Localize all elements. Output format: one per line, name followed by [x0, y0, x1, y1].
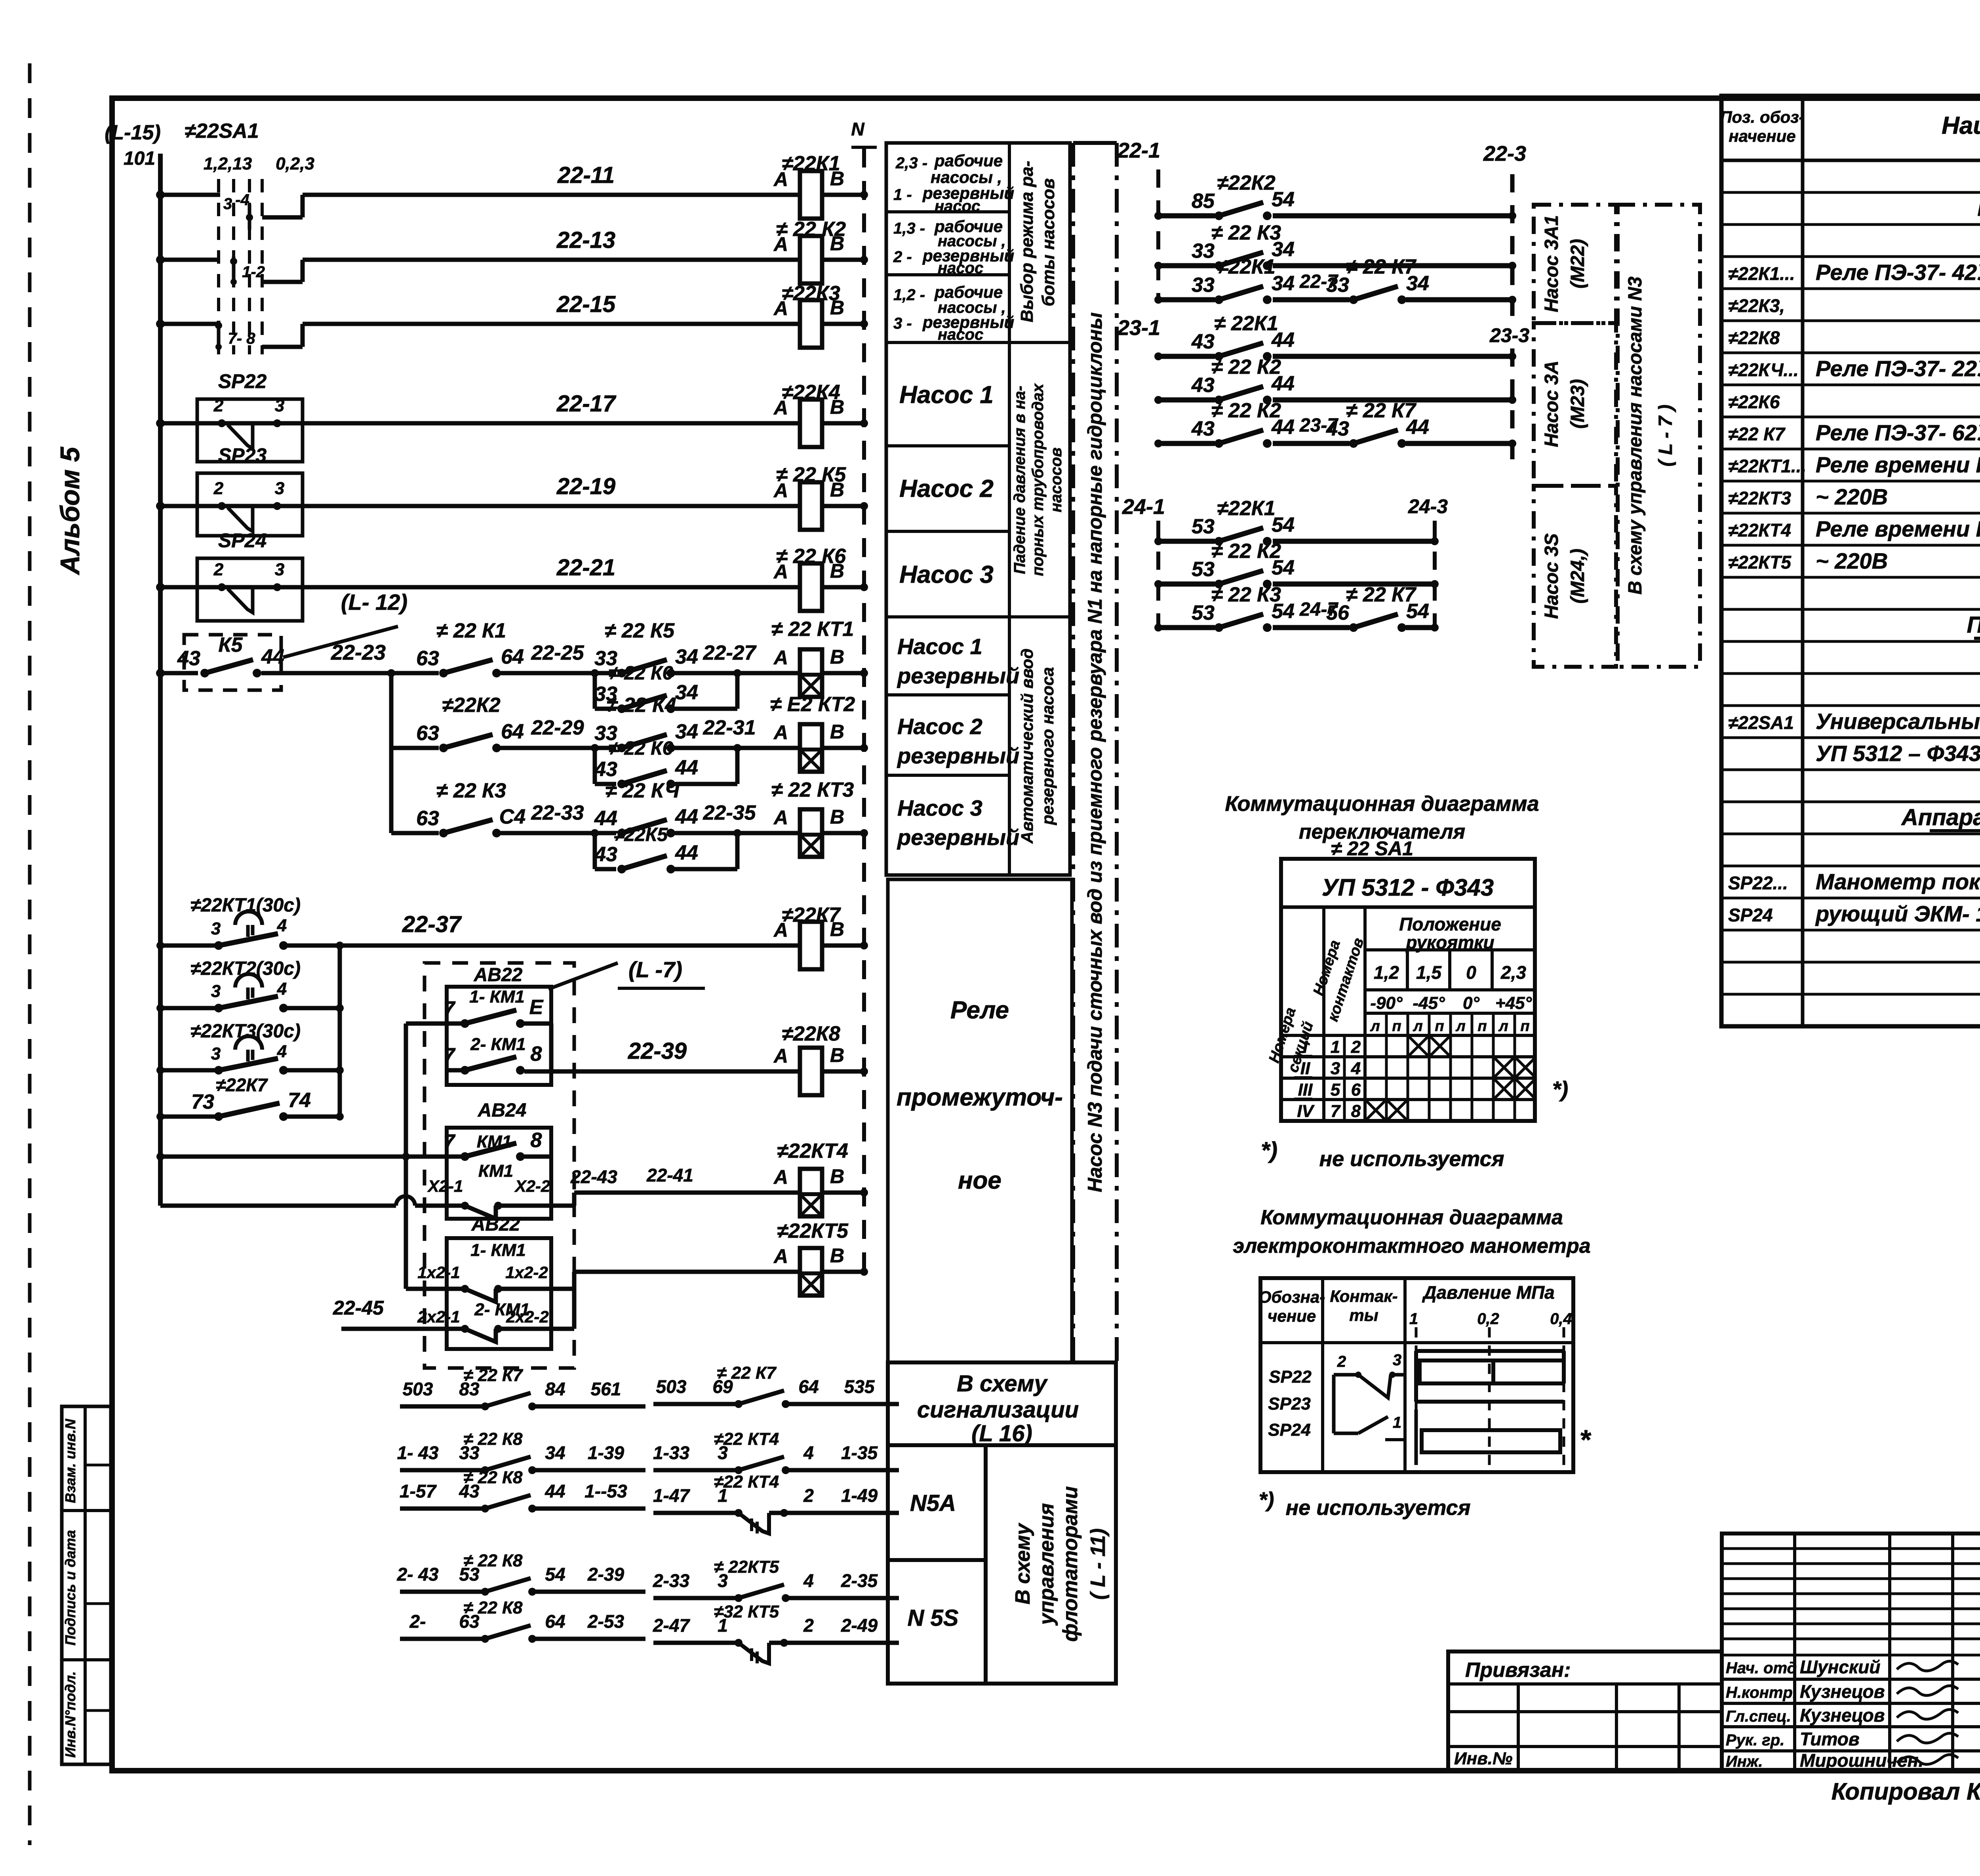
svg-text:*): *): [1259, 1488, 1274, 1512]
svg-text:2- КМ1: 2- КМ1: [470, 1035, 526, 1054]
svg-text:1-2: 1-2: [242, 263, 265, 281]
svg-text:В: В: [830, 1165, 844, 1187]
svg-text:≠ 22 К8: ≠ 22 К8: [463, 1468, 523, 1487]
svg-text:насос: насос: [938, 326, 983, 343]
svg-text:≠ Е2 КТ2: ≠ Е2 КТ2: [770, 693, 855, 716]
svg-text:Мирошничен.: Мирошничен.: [1800, 1750, 1923, 1771]
svg-text:22-31: 22-31: [703, 716, 756, 739]
wire rung 23 group 43-44 22K1: [1158, 354, 1215, 359]
svg-text:1,5: 1,5: [1416, 962, 1442, 983]
svg-text:5: 5: [1331, 1080, 1340, 1100]
svg-text:22-25: 22-25: [531, 641, 584, 664]
wire rung 22-11: [160, 193, 220, 197]
svg-text:-4: -4: [235, 191, 249, 209]
svg-text:А: А: [773, 297, 788, 320]
svg-text:≠22SА1: ≠22SА1: [185, 120, 259, 143]
svg-text:Реле ПЭ-37- 42УЗ , ~ 220В: Реле ПЭ-37- 42УЗ , ~ 220В: [1816, 260, 1980, 285]
svg-text:34: 34: [545, 1442, 565, 1463]
svg-text:2,3: 2,3: [1500, 962, 1526, 983]
svg-text:7: 7: [444, 997, 456, 1020]
svg-text:≠22К1: ≠22К1: [1217, 497, 1275, 520]
svg-text:8: 8: [531, 1129, 542, 1152]
svg-text:2х2-2: 2х2-2: [506, 1307, 548, 1326]
svg-text:порных трубопроводах: порных трубопроводах: [1029, 383, 1047, 576]
svg-text:2-33: 2-33: [653, 1570, 689, 1591]
wire rung 22 group1 85-54 22K2: [1158, 213, 1215, 219]
manometer pressure bars: [1416, 1349, 1564, 1353]
svg-text:Насос N3 подачи сточных во: Насос N3 подачи сточных вод из приемного…: [1084, 312, 1106, 1192]
parts table frame: [1721, 96, 1980, 1026]
svg-text:Давление МПа: Давление МПа: [1422, 1282, 1554, 1303]
svg-text:Коммутационная диаграмма: Коммутационная диаграмма: [1225, 792, 1539, 816]
svg-text:22-33: 22-33: [531, 801, 584, 824]
svg-text:-90°: -90°: [1370, 993, 1403, 1013]
svg-text:Реле времени РКВ11- 43 - 12: Реле времени РКВ11- 43 - 122 УХЛ4 ,: [1816, 516, 1980, 541]
svg-text:Выбор режима ра-: Выбор режима ра-: [1017, 161, 1037, 322]
svg-text:≠ 22 К5: ≠ 22 К5: [605, 619, 675, 642]
svg-text:≠ 22 К8: ≠ 22 К8: [463, 1551, 523, 1570]
svg-text:Е: Е: [529, 996, 544, 1019]
svg-text:≠ 22КТ5: ≠ 22КТ5: [714, 1557, 779, 1577]
svg-text:≠ 22 К8: ≠ 22 К8: [463, 1429, 523, 1449]
svg-text:≠22 КТ4: ≠22 КТ4: [714, 1429, 779, 1449]
svg-text:24-3: 24-3: [1408, 495, 1448, 518]
svg-text:ты: ты: [1349, 1306, 1378, 1324]
svg-text:Насос 1: Насос 1: [899, 381, 994, 409]
svg-text:Наименование: Наименование: [1942, 112, 1980, 139]
svg-text:управления: управления: [1035, 1503, 1058, 1626]
svg-text:Поз. обоз-: Поз. обоз-: [1720, 108, 1804, 126]
svg-text:3: 3: [211, 919, 221, 938]
svg-text:22-21: 22-21: [556, 555, 615, 580]
svg-text:В: В: [830, 721, 844, 743]
wire rung 24 group 53-54 22K1: [1158, 539, 1215, 544]
svg-text:64: 64: [545, 1611, 565, 1632]
svg-text:л: л: [1498, 1018, 1508, 1035]
svg-text:22-15: 22-15: [556, 291, 616, 317]
svg-text:3: 3: [211, 1044, 221, 1064]
svg-text:2: 2: [213, 396, 224, 415]
svg-text:Альбом 5: Альбом 5: [55, 447, 85, 576]
svg-text:≠ 22 К2: ≠ 22 К2: [1211, 356, 1281, 379]
svg-text:3: 3: [1331, 1059, 1340, 1078]
svg-text:4: 4: [803, 1570, 814, 1591]
pump M23 box: [1534, 323, 1616, 486]
svg-text:Реле времени РКВ11- 33- 112: Реле времени РКВ11- 33- 112 УХЛ4 ,: [1816, 452, 1980, 477]
svg-text:-45°: -45°: [1413, 993, 1445, 1013]
svg-text:22-29: 22-29: [531, 716, 584, 739]
svg-text:В: В: [830, 1244, 844, 1267]
svg-text:Насос 2: Насос 2: [899, 475, 994, 502]
svg-text:503: 503: [656, 1376, 687, 1397]
svg-text:43: 43: [594, 758, 617, 781]
switch SA1 contact 7-8: [215, 322, 222, 329]
wire rung 22-39: [524, 1069, 768, 1074]
svg-text:43: 43: [177, 647, 200, 670]
svg-text:SР22: SР22: [1269, 1367, 1312, 1387]
contact 22K2 63-64: [391, 746, 439, 750]
svg-text:≠ 22 К2: ≠ 22 К2: [1211, 540, 1281, 563]
node 101 supply bus: [158, 154, 163, 1206]
svg-text:≠22 К7: ≠22 К7: [1728, 424, 1786, 444]
legend table frame: [886, 143, 1070, 875]
svg-text:Насос 1: Насос 1: [897, 634, 982, 659]
svg-text:+45°: +45°: [1495, 993, 1532, 1013]
svg-text:33: 33: [1192, 274, 1215, 297]
svg-text:22-45: 22-45: [333, 1297, 384, 1319]
svg-text:Х2-2: Х2-2: [514, 1177, 550, 1195]
svg-text:≠22К8: ≠22К8: [1728, 327, 1780, 348]
svg-text:Реле ПЭ-37- 22УЗ, ~220В: Реле ПЭ-37- 22УЗ, ~220В: [1816, 356, 1980, 381]
switch SA1 contact 1-2: [230, 258, 237, 265]
svg-text:535: 535: [844, 1376, 875, 1397]
svg-text:В: В: [830, 918, 844, 940]
svg-text:≠22К5: ≠22К5: [614, 824, 668, 845]
svg-text:не используется: не используется: [1286, 1496, 1471, 1520]
svg-text:≠ 22 К7: ≠ 22 К7: [1346, 583, 1416, 606]
svg-text:43: 43: [1191, 330, 1215, 353]
svg-text:≠22КТ4: ≠22КТ4: [1728, 520, 1791, 540]
svg-text:34: 34: [675, 720, 698, 743]
svg-text:Титов: Титов: [1800, 1729, 1860, 1749]
svg-text:рабочие: рабочие: [934, 283, 1003, 301]
svg-text:8: 8: [531, 1043, 542, 1065]
svg-text:SР23: SР23: [218, 444, 267, 466]
svg-text:УП 5312 – Ф343 УЗ: УП 5312 – Ф343 УЗ: [1816, 741, 1980, 766]
svg-text:0: 0: [1466, 962, 1476, 983]
svg-text:43: 43: [594, 843, 617, 866]
svg-text:22-11: 22-11: [557, 162, 615, 188]
svg-text:SР24: SР24: [1728, 905, 1773, 925]
svg-text:≠22К2: ≠22К2: [442, 694, 500, 717]
svg-text:44: 44: [675, 756, 698, 779]
svg-text:не используется: не используется: [1319, 1147, 1504, 1171]
svg-text:7: 7: [444, 1044, 456, 1067]
svg-text:Рук. гр.: Рук. гр.: [1726, 1731, 1784, 1749]
svg-text:(М22): (М22): [1567, 239, 1588, 288]
svg-text:Кузнецов: Кузнецов: [1800, 1681, 1885, 1702]
title block attach box: [1448, 1651, 1722, 1771]
wire rung 22-23: [160, 671, 198, 675]
svg-text:73: 73: [191, 1090, 214, 1113]
switch data rows: [1343, 1035, 1346, 1121]
svg-text:~ 220В: ~ 220В: [1816, 484, 1888, 509]
svg-text:44: 44: [261, 645, 284, 668]
contactor aux box AB22 lower: [447, 1238, 551, 1349]
svg-text:В: В: [830, 806, 844, 828]
svg-text:0°: 0°: [1463, 993, 1479, 1013]
svg-text:1: 1: [1393, 1414, 1401, 1431]
svg-text:0,4: 0,4: [1550, 1310, 1572, 1328]
svg-text:~ 220В: ~ 220В: [1816, 548, 1888, 573]
branch contact 22K5 43-44: [593, 833, 597, 869]
svg-text:Привязан:: Привязан:: [1465, 1659, 1571, 1682]
inventory stamp boxes: [62, 1406, 111, 1764]
svg-text:резервного насоса: резервного насоса: [1038, 667, 1057, 825]
svg-text:2-39: 2-39: [587, 1564, 624, 1585]
svg-text:3: 3: [211, 982, 221, 1001]
svg-text:1,2 -: 1,2 -: [893, 286, 925, 304]
svg-text:1-33: 1-33: [653, 1442, 689, 1463]
title block staff grid: [1722, 1534, 1980, 1771]
svg-text:*): *): [1552, 1077, 1568, 1102]
svg-text:≠22К8: ≠22К8: [782, 1022, 840, 1045]
svg-text:резервный: резервный: [897, 743, 1019, 768]
svg-text:1: 1: [1409, 1310, 1418, 1328]
svg-text:АВ22: АВ22: [474, 965, 523, 986]
svg-text:рабочие: рабочие: [934, 151, 1003, 170]
contactor aux box AB24: [447, 1128, 551, 1219]
svg-text:п: п: [1435, 1018, 1444, 1035]
svg-text:Насос 3А: Насос 3А: [1541, 361, 1562, 447]
svg-text:22-41: 22-41: [646, 1165, 693, 1185]
svg-text:N5А: N5А: [910, 1490, 956, 1516]
svg-text:N 5S: N 5S: [908, 1605, 959, 1631]
wire rung 24 group 53-54 22K2: [1158, 582, 1215, 587]
svg-text:≠ 22 К3: ≠ 22 К3: [1211, 221, 1281, 244]
signal scheme box: [888, 1362, 1116, 1445]
svg-text:ное: ное: [958, 1167, 1001, 1194]
svg-text:22-39: 22-39: [628, 1038, 687, 1064]
svg-text:8: 8: [1351, 1102, 1361, 1121]
svg-text:л: л: [1413, 1018, 1423, 1035]
svg-text:2,3 -: 2,3 -: [895, 154, 927, 172]
pump M22 box: [1534, 205, 1616, 323]
svg-text:электроконтактного манометра: электроконтактного манометра: [1233, 1235, 1590, 1258]
svg-text:Шунский: Шунский: [1800, 1657, 1881, 1677]
svg-text:22-43: 22-43: [570, 1166, 617, 1187]
svg-text:1,2,13: 1,2,13: [204, 154, 252, 173]
svg-text:≠22КТ4: ≠22КТ4: [777, 1140, 848, 1163]
svg-text:2-47: 2-47: [653, 1615, 690, 1636]
leader to L-7: [548, 963, 618, 989]
pump M24 box: [1534, 486, 1616, 667]
svg-text:Н.контр.: Н.контр.: [1726, 1684, 1797, 1701]
svg-text:≠ 22 КТ3: ≠ 22 КТ3: [771, 778, 854, 801]
svg-text:2: 2: [1337, 1353, 1346, 1370]
svg-text:≠22КТ3(30с): ≠22КТ3(30с): [190, 1021, 301, 1042]
page left fold dashed line: [28, 63, 32, 1845]
svg-text:К5: К5: [219, 634, 243, 656]
svg-text:Насос 3S: Насос 3S: [1541, 533, 1562, 619]
svg-text:флотаторами: флотаторами: [1059, 1486, 1082, 1642]
svg-text:≠ 22 К7: ≠ 22 К7: [1346, 399, 1416, 422]
filter control box: [986, 1445, 1116, 1684]
svg-text:1- КМ1: 1- КМ1: [470, 1241, 526, 1260]
svg-text:( L - 7 ): ( L - 7 ): [1655, 405, 1676, 466]
svg-text:А: А: [773, 807, 788, 829]
svg-text:Положение: Положение: [1399, 914, 1501, 934]
svg-text:1х2-2: 1х2-2: [505, 1263, 548, 1282]
svg-text:63: 63: [416, 647, 439, 670]
svg-text:Обозна-: Обозна-: [1258, 1288, 1325, 1306]
svg-text:≠ 22 SА1: ≠ 22 SА1: [1331, 837, 1413, 860]
svg-text:В: В: [830, 232, 844, 255]
svg-text:2-: 2-: [409, 1611, 426, 1632]
svg-text:44: 44: [544, 1481, 565, 1501]
svg-text:Инж.: Инж.: [1726, 1753, 1763, 1770]
svg-text:2: 2: [213, 560, 224, 579]
switch SA1 dashed section lines: [217, 179, 220, 354]
pressure switch SP23 rung 22-19: [197, 473, 303, 536]
wire branch to rung 22-33: [389, 748, 394, 833]
legend relay box: [888, 879, 1072, 1362]
svg-text:АВ22: АВ22: [471, 1214, 520, 1235]
svg-text:3: 3: [275, 479, 284, 498]
manometer table: [1260, 1278, 1573, 1472]
svg-text:22-37: 22-37: [402, 911, 462, 937]
svg-text:44: 44: [675, 841, 698, 864]
svg-text:34: 34: [675, 681, 698, 704]
svg-text:SР24: SР24: [218, 529, 267, 552]
svg-text:п: п: [1392, 1018, 1401, 1035]
svg-text:SР22...: SР22...: [1728, 873, 1788, 893]
svg-text:1-47: 1-47: [653, 1485, 690, 1506]
wire rung 22 group1 33-34 22K1 + 22K7: [1158, 297, 1215, 303]
svg-text:насос: насос: [938, 259, 983, 277]
svg-text:А: А: [773, 561, 788, 583]
bus junction dots: [156, 190, 165, 199]
svg-text:Контак-: Контак-: [1330, 1287, 1397, 1305]
wire 22-43 22-41 to coil: [572, 1193, 577, 1206]
svg-text:В: В: [830, 479, 844, 501]
svg-text:В схему управления насосами: В схему управления насосами N3: [1625, 276, 1646, 595]
svg-text:≠ 22 К6: ≠ 22 К6: [609, 663, 673, 684]
svg-text:Реле: Реле: [950, 997, 1009, 1024]
switch SA1 contact 3-4: [246, 214, 253, 221]
svg-text:≠ 22 К8: ≠ 22 К8: [463, 1598, 523, 1617]
to control scheme N3 box: [1618, 205, 1700, 667]
svg-text:7: 7: [444, 1130, 456, 1153]
contactor aux box AB22 contacts: [447, 987, 551, 1085]
svg-text:Универсальный переключатель: Универсальный переключатель: [1816, 709, 1980, 734]
svg-text:2: 2: [803, 1615, 814, 1636]
svg-text:2: 2: [213, 479, 224, 498]
svg-text:≠22К6: ≠22К6: [1728, 392, 1780, 412]
svg-text:503: 503: [403, 1379, 433, 1399]
svg-text:В: В: [830, 396, 844, 418]
branch contact 22K6 43-44: [593, 748, 597, 784]
branch vertical for time contacts: [338, 946, 342, 1117]
svg-text:п: п: [1477, 1018, 1487, 1035]
svg-text:≠ 22 К1: ≠ 22 К1: [436, 619, 506, 642]
svg-text:22-35: 22-35: [703, 801, 756, 824]
svg-text:А: А: [773, 919, 788, 941]
svg-text:Падение давления в на-: Падение давления в на-: [1011, 386, 1028, 574]
contact K5 43-44 dashed box: [184, 635, 281, 690]
svg-text:В схему: В схему: [1011, 1522, 1034, 1604]
svg-text:( L - 11): ( L - 11): [1087, 1528, 1110, 1600]
svg-text:Инв.N°подл.: Инв.N°подл.: [62, 1671, 78, 1758]
svg-text:1- 43: 1- 43: [397, 1442, 439, 1463]
svg-text:≠22К1...: ≠22К1...: [1728, 263, 1795, 284]
svg-text:64: 64: [798, 1376, 819, 1397]
svg-text:А: А: [773, 233, 788, 255]
svg-text:≠22КТ5: ≠22КТ5: [777, 1220, 849, 1242]
svg-text:≠ 22 К3: ≠ 22 К3: [436, 779, 506, 802]
svg-text:I: I: [1303, 1037, 1308, 1057]
wire rung 22-15: [160, 322, 220, 326]
pressure switch SP24 rung 22-21: [197, 558, 303, 621]
svg-text:сигнализации: сигнализации: [917, 1397, 1079, 1423]
svg-text:(М23): (М23): [1567, 379, 1588, 428]
contact 22K3 63-64: [391, 831, 439, 835]
svg-text:А: А: [773, 721, 788, 744]
svg-text:24-1: 24-1: [1122, 495, 1165, 519]
svg-text:≠22 КТ4: ≠22 КТ4: [714, 1472, 779, 1492]
left link vertical: [404, 1024, 408, 1157]
svg-text:(М24,): (М24,): [1567, 549, 1588, 604]
svg-text:1,3 -: 1,3 -: [893, 220, 925, 237]
dashed enclosure AB boxes: [425, 963, 574, 1368]
svg-text:(L 16): (L 16): [971, 1421, 1032, 1446]
svg-text:III: III: [1298, 1080, 1313, 1100]
svg-text:3: 3: [223, 195, 232, 213]
svg-text:Нач. отд: Нач. отд: [1726, 1659, 1797, 1677]
svg-text:А: А: [773, 168, 788, 190]
svg-text:≠22К3,: ≠22К3,: [1728, 295, 1785, 316]
svg-text:2: 2: [1351, 1037, 1361, 1057]
svg-text:Щит НS1: Щит НS1: [1977, 195, 1980, 221]
svg-text:63: 63: [416, 807, 439, 830]
svg-text:4: 4: [277, 979, 287, 999]
svg-text:4: 4: [803, 1442, 814, 1463]
svg-text:≠32 КТ5: ≠32 КТ5: [714, 1602, 779, 1621]
svg-text:7- 8: 7- 8: [228, 330, 256, 347]
svg-text:3: 3: [275, 396, 284, 415]
wire rung 24 group 53-54 22K3 + 22K7: [1158, 625, 1215, 630]
svg-text:Аппаратура по месту: Аппаратура по месту: [1901, 805, 1980, 830]
svg-text:44: 44: [675, 805, 698, 828]
svg-text:резервный: резервный: [897, 825, 1019, 850]
svg-text:≠ 22 К4: ≠ 22 К4: [607, 694, 676, 717]
svg-text:1-49: 1-49: [841, 1485, 878, 1506]
svg-text:*): *): [1261, 1138, 1277, 1163]
svg-text:≠ 22 КТ1: ≠ 22 КТ1: [771, 618, 854, 641]
svg-text:1х2-1: 1х2-1: [417, 1263, 460, 1282]
svg-text:85: 85: [1192, 190, 1215, 213]
svg-text:561: 561: [591, 1379, 621, 1399]
svg-text:22-13: 22-13: [556, 227, 615, 253]
svg-text:Гл.спец.: Гл.спец.: [1726, 1708, 1791, 1725]
svg-text:74: 74: [288, 1089, 311, 1112]
svg-text:≠ 22 КЧ: ≠ 22 КЧ: [605, 779, 680, 802]
svg-text:Подпись и дата: Подпись и дата: [62, 1530, 78, 1646]
svg-text:Кузнецов: Кузнецов: [1800, 1705, 1885, 1726]
svg-text:резервный: резервный: [897, 663, 1019, 688]
svg-text:7: 7: [1331, 1102, 1341, 1121]
branch contact 22K6 33-34: [593, 673, 597, 709]
svg-text:≠ 22 К7: ≠ 22 К7: [463, 1366, 524, 1385]
svg-text:Реле ПЭ-37- 62УЗ, ~ 220В: Реле ПЭ-37- 62УЗ, ~ 220В: [1816, 420, 1980, 445]
svg-text:3: 3: [275, 560, 284, 579]
svg-text:чение: чение: [1268, 1307, 1316, 1325]
svg-text:1-57: 1-57: [400, 1481, 437, 1501]
svg-text:≠ 22 К6: ≠ 22 К6: [609, 738, 673, 759]
svg-text:3 -: 3 -: [893, 315, 912, 332]
switch position cells: [1363, 950, 1367, 990]
svg-text:IV: IV: [1297, 1102, 1315, 1121]
svg-text:*: *: [1579, 1424, 1591, 1455]
svg-text:23-1: 23-1: [1117, 316, 1160, 340]
svg-text:УП 5312 - Ф343: УП 5312 - Ф343: [1322, 874, 1494, 901]
svg-text:4: 4: [277, 916, 287, 935]
svg-text:1,2: 1,2: [1374, 962, 1399, 983]
svg-text:54: 54: [545, 1564, 565, 1585]
svg-text:А: А: [773, 1166, 788, 1188]
svg-text:≠22К2: ≠22К2: [1217, 171, 1275, 194]
svg-text:л: л: [1370, 1018, 1380, 1035]
